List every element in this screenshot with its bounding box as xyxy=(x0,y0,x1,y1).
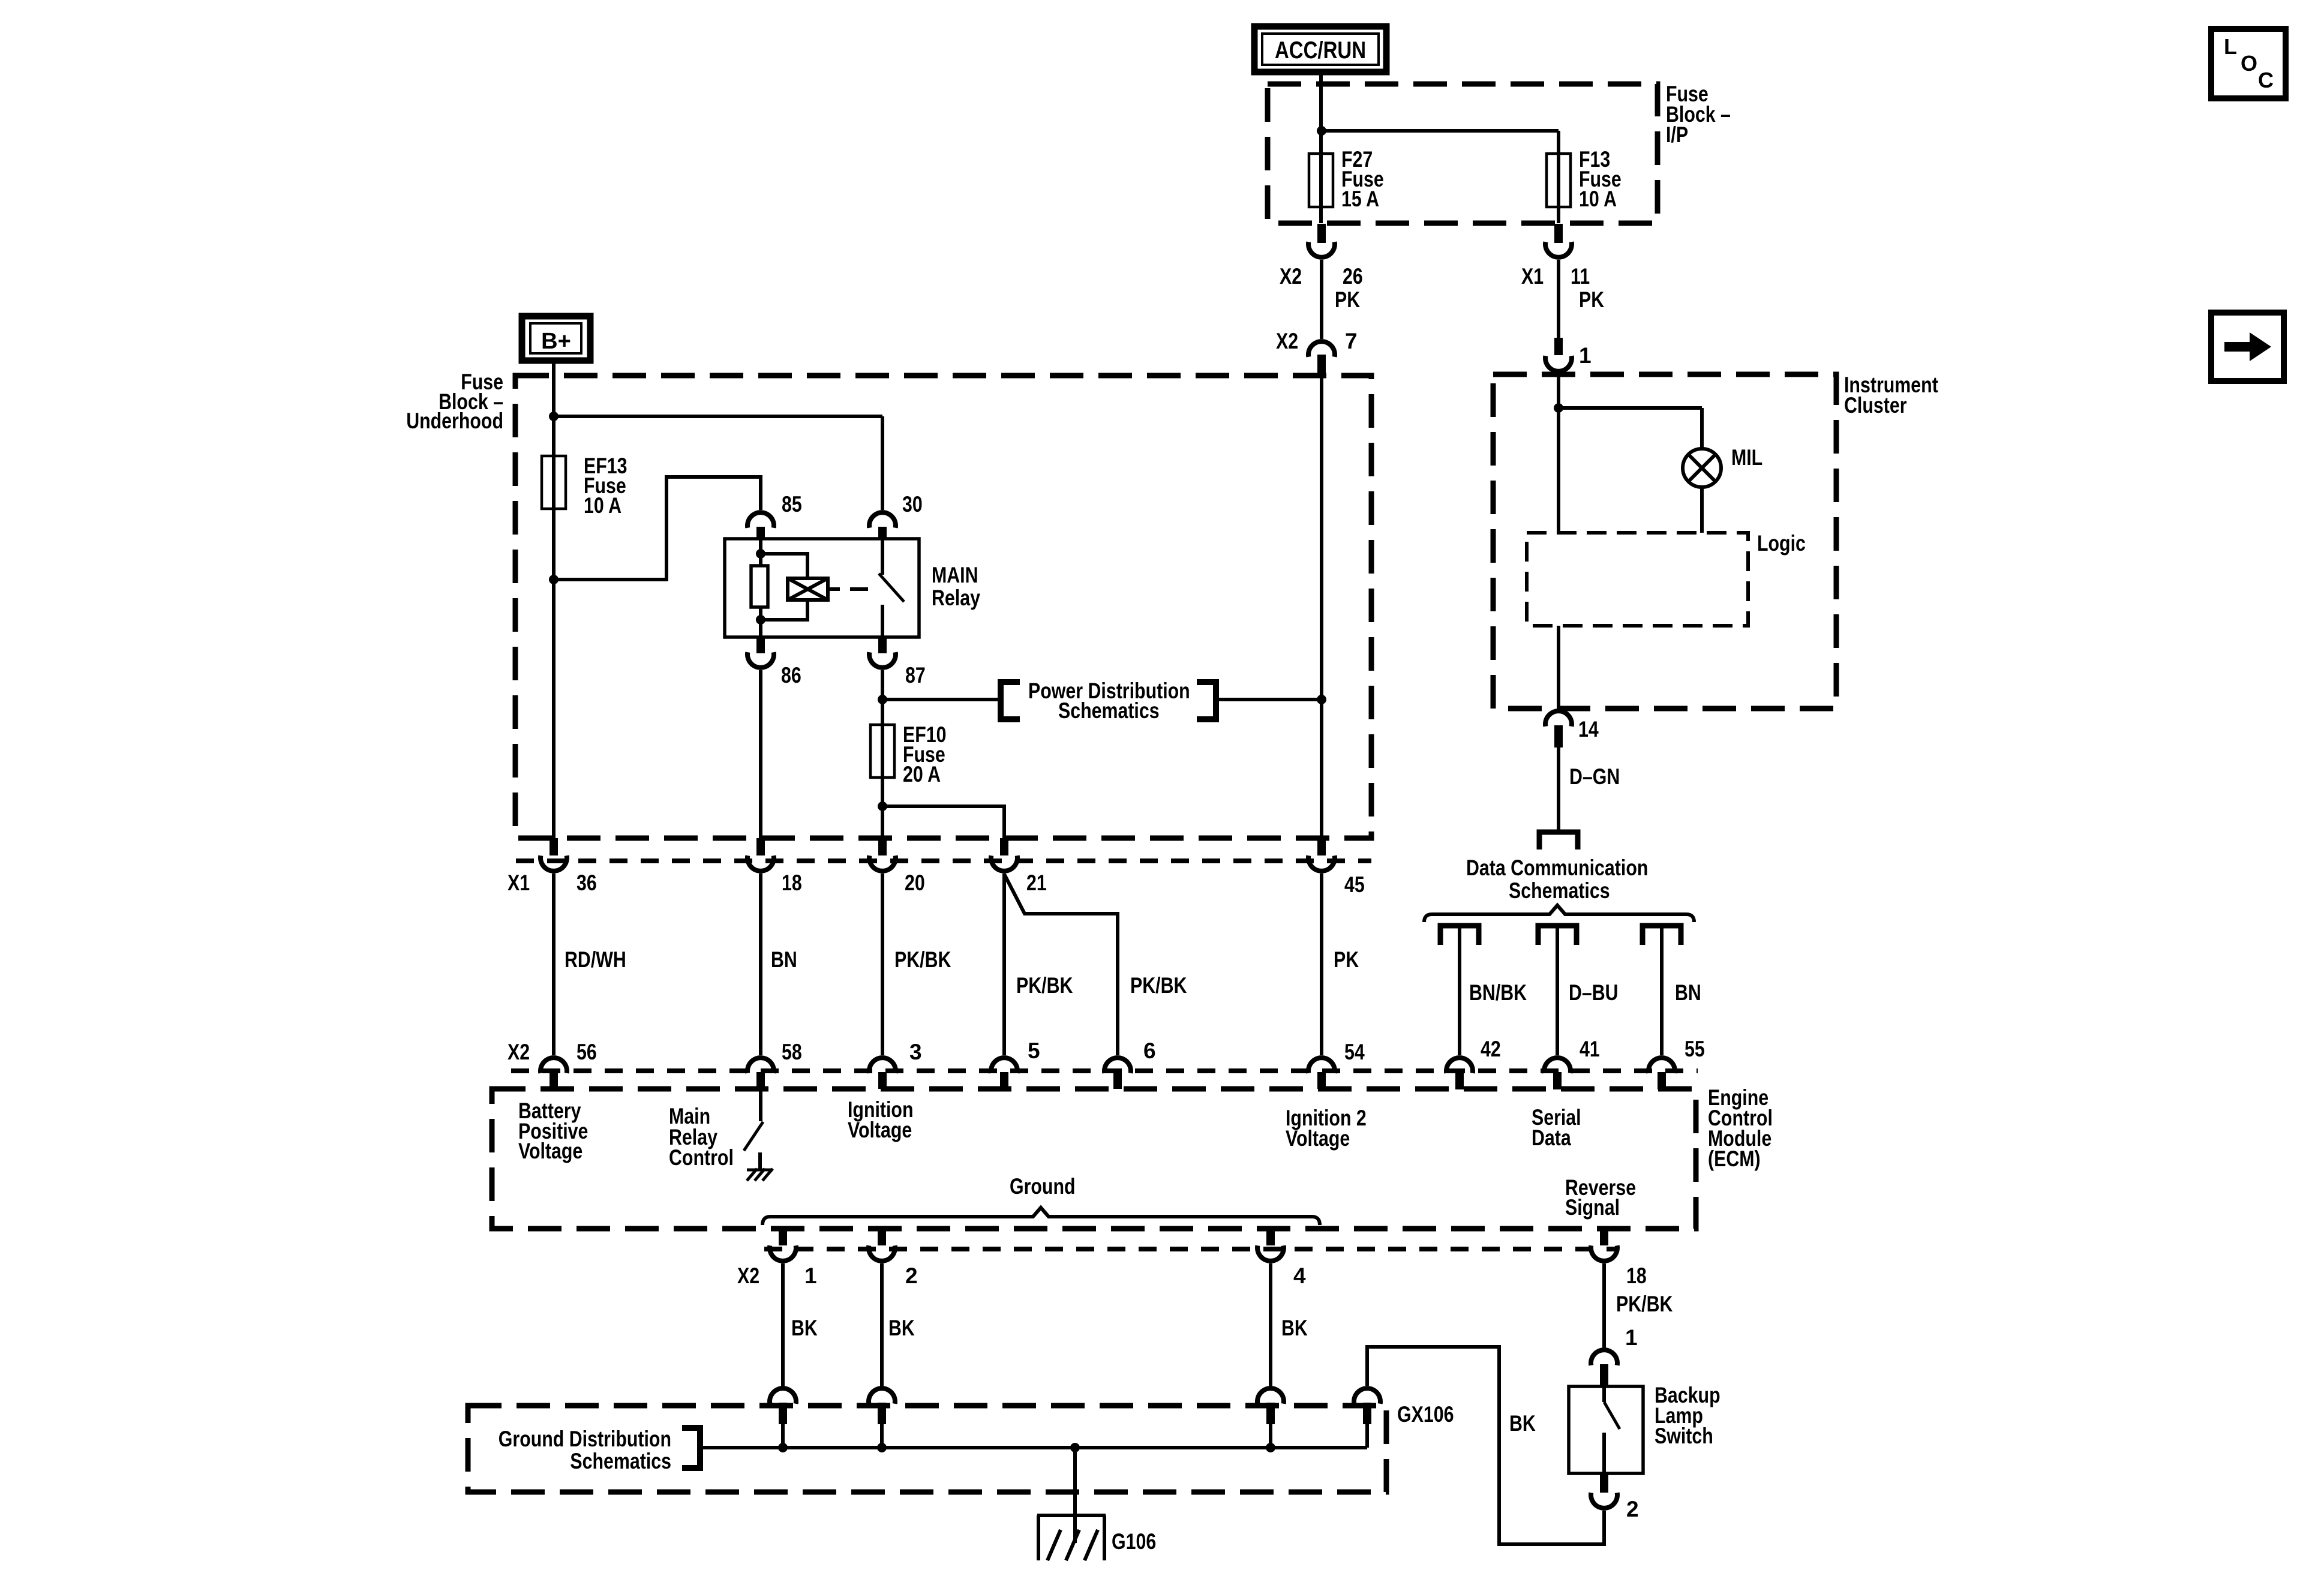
svg-text:1: 1 xyxy=(1625,1325,1638,1350)
svg-text:5: 5 xyxy=(1028,1038,1040,1063)
svg-text:B+: B+ xyxy=(541,329,571,354)
svg-text:26: 26 xyxy=(1343,264,1363,289)
wire to F13 xyxy=(1322,129,1559,133)
lamp MIL (indicator) xyxy=(1683,449,1721,487)
wire relay fixed contact xyxy=(881,539,884,575)
svg-text:Data: Data xyxy=(1532,1125,1571,1150)
wire MIL top xyxy=(1700,408,1704,449)
connector relay pin 87 xyxy=(869,637,896,668)
connector X2 pin 54 xyxy=(1308,1058,1335,1089)
svg-text:BN/BK: BN/BK xyxy=(1469,980,1527,1005)
connector X2 pin 7 xyxy=(1308,341,1335,375)
backup lamp switch box xyxy=(1569,1386,1643,1473)
connector ECM X2 pin 18 xyxy=(1591,1229,1617,1261)
svg-text:7: 7 xyxy=(1345,329,1358,353)
wire relay lower contact xyxy=(881,605,884,637)
wire to G106 xyxy=(1073,1448,1077,1515)
svg-text:X2: X2 xyxy=(1276,329,1298,353)
svg-text:BK: BK xyxy=(888,1316,915,1340)
fuse block underhood dashed box xyxy=(515,376,1371,838)
wire cluster internal xyxy=(1557,374,1560,533)
svg-text:I/P: I/P xyxy=(1666,122,1688,147)
wire BN xyxy=(1660,926,1664,1055)
svg-text:10 A: 10 A xyxy=(1579,187,1617,211)
connector X1 pin 20 xyxy=(869,838,896,871)
wire BN/BK xyxy=(1458,926,1461,1055)
svg-text:X1: X1 xyxy=(508,870,530,895)
connector ECM X2 dotted line xyxy=(764,1247,1618,1251)
fuse EF10 20A xyxy=(870,725,894,778)
node bus junction 2 xyxy=(877,1443,887,1452)
svg-text:PK/BK: PK/BK xyxy=(1130,973,1187,998)
wire through F13 xyxy=(1557,131,1560,223)
connector ECM pin 42 xyxy=(1446,1058,1473,1089)
svg-text:Control: Control xyxy=(669,1145,734,1170)
svg-text:14: 14 xyxy=(1578,717,1599,742)
arrow (continuation) box xyxy=(2211,313,2284,381)
wire ground bus xyxy=(700,1446,1367,1449)
relay MAIN box xyxy=(725,539,919,637)
svg-text:Data Communication: Data Communication xyxy=(1466,855,1648,880)
node junction below EF13 xyxy=(549,575,559,584)
wire MIL to logic xyxy=(1700,487,1704,533)
wire RD/WH xyxy=(552,873,556,1055)
svg-text:20 A: 20 A xyxy=(903,762,941,786)
connector X1 pin 45 xyxy=(1308,838,1335,871)
connector X1 pin 18 xyxy=(747,838,774,871)
connector X1 pin 21 xyxy=(991,838,1017,871)
wire BN xyxy=(759,873,762,1055)
wire BK pin 1 xyxy=(781,1263,785,1387)
svg-text:Ground: Ground xyxy=(1010,1174,1076,1199)
svg-text:54: 54 xyxy=(1344,1040,1365,1064)
svg-text:36: 36 xyxy=(577,870,597,895)
wire PK to X2-7 xyxy=(1320,260,1323,339)
connector X2 dotted line xyxy=(511,1068,1698,1073)
wire relay 86 to X1-18 xyxy=(759,670,762,838)
wire coil branch bottom xyxy=(761,600,807,620)
svg-text:Cluster: Cluster xyxy=(1844,393,1907,418)
wire ACC/RUN feed down through F27 xyxy=(1319,72,1323,223)
svg-text:11: 11 xyxy=(1571,264,1590,289)
node junction below EF10 xyxy=(878,801,887,811)
svg-text:Ground Distribution: Ground Distribution xyxy=(499,1427,671,1451)
wire gx106 right leg xyxy=(1365,1424,1369,1448)
wire EF13 to relay pin 85 xyxy=(554,477,761,580)
wire coil branch top xyxy=(761,554,807,578)
wire ECM switch blade xyxy=(744,1122,763,1151)
connector ECM X2 pin 2 xyxy=(869,1229,895,1261)
connector backup lamp pin 2 xyxy=(1591,1473,1617,1508)
svg-text:1: 1 xyxy=(1579,343,1592,368)
brace (ground pins) xyxy=(762,1208,1320,1225)
logic dashed box xyxy=(1527,533,1748,626)
connector X2 pin 5 xyxy=(991,1058,1017,1089)
svg-text:15 A: 15 A xyxy=(1341,187,1379,211)
node junction pin 87 to power dist xyxy=(878,695,887,704)
svg-text:18: 18 xyxy=(782,870,802,895)
node bus junction 1 xyxy=(778,1443,788,1452)
wire switch lower contact xyxy=(1602,1433,1606,1473)
svg-text:2: 2 xyxy=(905,1263,918,1288)
svg-text:86: 86 xyxy=(781,663,801,688)
tap to data communication schematics xyxy=(1539,832,1578,849)
svg-text:RD/WH: RD/WH xyxy=(565,947,626,972)
svg-text:GX106: GX106 xyxy=(1397,1402,1454,1427)
ECM dashed box xyxy=(492,1089,1696,1229)
wire BK pin 2 xyxy=(880,1263,884,1387)
svg-text:42: 42 xyxy=(1481,1037,1501,1061)
bracket right xyxy=(1197,682,1216,719)
connector GX106 (pin for ECM ground 4) xyxy=(1257,1388,1284,1424)
svg-text:D–BU: D–BU xyxy=(1569,980,1619,1005)
svg-text:BK: BK xyxy=(791,1316,818,1340)
svg-text:4: 4 xyxy=(1293,1263,1306,1288)
wire B+ main vertical xyxy=(552,361,556,838)
node ACC/RUN (ignition feed tag) xyxy=(1254,26,1386,72)
wire logic to pin 14 xyxy=(1557,626,1560,709)
ground distribution dashed box xyxy=(468,1406,1386,1492)
connector cluster pin 14 xyxy=(1545,711,1572,748)
wire power dist to ignition 2 feed xyxy=(1216,698,1322,701)
connector ECM pin 41 xyxy=(1544,1058,1571,1089)
svg-text:D–GN: D–GN xyxy=(1569,764,1620,789)
svg-text:Schematics: Schematics xyxy=(1509,878,1610,903)
svg-text:Voltage: Voltage xyxy=(1286,1126,1350,1151)
resistor (relay coil suppression) xyxy=(751,566,768,607)
wire gnd 1 to bus xyxy=(781,1424,785,1448)
svg-text:BK: BK xyxy=(1509,1411,1536,1436)
svg-text:BN: BN xyxy=(771,947,797,972)
connector backup lamp pin 1 xyxy=(1591,1350,1617,1386)
svg-text:Signal: Signal xyxy=(1565,1195,1620,1220)
svg-text:55: 55 xyxy=(1685,1037,1705,1061)
node bus junction G106 xyxy=(1070,1443,1080,1452)
wire relay actuator dash xyxy=(850,587,868,591)
connector GX106 (pin for backup lamp ground) xyxy=(1354,1388,1380,1424)
node coil bottom junction xyxy=(756,615,765,625)
wire gnd 4 to bus xyxy=(1269,1424,1272,1448)
coil (relay winding box with X) xyxy=(788,578,840,600)
svg-text:Relay: Relay xyxy=(932,586,980,610)
wire to relay pin 30 xyxy=(554,415,882,418)
wire BK backup lamp ground loop xyxy=(1367,1347,1604,1544)
svg-text:(ECM): (ECM) xyxy=(1708,1146,1761,1171)
node junction to MIL xyxy=(1554,403,1563,413)
ground G106 xyxy=(1037,1515,1106,1560)
svg-text:Schematics: Schematics xyxy=(1058,698,1160,723)
tap serial data BN/BK xyxy=(1440,926,1479,945)
connector X1 pin 36 xyxy=(541,838,567,871)
connector X2 pin 56 xyxy=(541,1058,567,1089)
wire down to pin 30 xyxy=(881,416,884,510)
connector GX106 (pin for ECM ground 2) xyxy=(869,1388,895,1424)
wire PK/BK pin 21 to 5 xyxy=(1002,873,1006,1055)
connector cluster pin 1 xyxy=(1545,338,1572,371)
node junction ACC feed split xyxy=(1317,126,1326,136)
tap serial data BN xyxy=(1643,926,1681,945)
svg-text:Schematics: Schematics xyxy=(570,1449,671,1473)
svg-text:X2: X2 xyxy=(1280,264,1302,289)
svg-text:PK: PK xyxy=(1334,947,1359,972)
connector ECM X2 pin 1 xyxy=(770,1229,796,1261)
tap serial data D–BU xyxy=(1538,926,1577,945)
svg-text:2: 2 xyxy=(1626,1497,1639,1521)
ground (ECM internal chassis ground) xyxy=(747,1169,773,1181)
connector ECM X2 pin 4 xyxy=(1257,1229,1284,1261)
svg-text:6: 6 xyxy=(1143,1038,1156,1063)
connector X2 pin 6 xyxy=(1104,1058,1131,1089)
svg-text:20: 20 xyxy=(905,870,925,895)
connector ECM pin 55 xyxy=(1649,1058,1675,1089)
connector relay pin 86 xyxy=(747,637,774,668)
svg-text:PK/BK: PK/BK xyxy=(894,947,951,972)
svg-text:85: 85 xyxy=(782,492,802,517)
svg-text:X2: X2 xyxy=(737,1263,759,1288)
fuse block I/P dashed box xyxy=(1268,84,1658,223)
brace (data communication) xyxy=(1424,905,1694,922)
svg-text:MIL: MIL xyxy=(1731,445,1762,470)
connector X1 pin 11 xyxy=(1545,224,1572,257)
connector GX106 (pin for ECM ground 1) xyxy=(770,1388,796,1424)
svg-text:18: 18 xyxy=(1626,1263,1647,1288)
svg-text:45: 45 xyxy=(1344,872,1365,897)
svg-text:21: 21 xyxy=(1026,870,1047,895)
connector X2 pin 3 xyxy=(869,1058,896,1089)
svg-text:PK/BK: PK/BK xyxy=(1616,1292,1673,1316)
wire D-GN xyxy=(1557,748,1560,830)
wire PK/BK pin 21 to 6 xyxy=(1004,874,1118,1055)
wire to MIL lamp xyxy=(1559,406,1702,410)
node bus junction 4 xyxy=(1266,1443,1275,1452)
wire PK/BK pin 20 to 3 xyxy=(881,873,884,1055)
wire switch upper contact xyxy=(1602,1386,1606,1402)
wire relay coil branch xyxy=(759,539,762,637)
svg-text:PK: PK xyxy=(1579,287,1604,312)
svg-text:3: 3 xyxy=(909,1040,922,1064)
svg-text:41: 41 xyxy=(1580,1037,1600,1061)
connector X1 dotted line xyxy=(516,858,1371,863)
svg-text:L: L xyxy=(2224,34,2237,59)
svg-text:87: 87 xyxy=(905,663,926,688)
node B+ (battery feed tag) xyxy=(522,316,590,361)
connector X2 pin 26 xyxy=(1308,224,1335,257)
svg-text:PK: PK xyxy=(1335,287,1360,312)
wire ECM switch upper xyxy=(759,1089,762,1121)
fuse F13 10A xyxy=(1547,154,1571,207)
svg-text:Voltage: Voltage xyxy=(518,1139,582,1163)
wire ECM switch to ground xyxy=(758,1152,762,1170)
wire PK pin 45 to 54 xyxy=(1320,873,1323,1055)
svg-text:X1: X1 xyxy=(1521,264,1544,289)
connector relay pin 30 xyxy=(869,512,896,539)
wire PK to cluster pin 1 xyxy=(1557,260,1560,338)
connector X2 pin 58 xyxy=(747,1058,774,1089)
fuse F27 15A xyxy=(1309,154,1333,207)
svg-text:Underhood: Underhood xyxy=(406,409,503,433)
svg-text:1: 1 xyxy=(804,1263,817,1288)
wire relay 87 down through EF10 xyxy=(881,670,884,838)
wire EF10 to X1-21 xyxy=(882,806,1004,838)
wire D–BU xyxy=(1556,926,1559,1055)
wire PK/BK reverse signal xyxy=(1602,1263,1606,1349)
wire BK pin 4 xyxy=(1269,1263,1272,1387)
svg-text:O: O xyxy=(2241,51,2257,76)
node junction B+ split xyxy=(549,412,559,421)
svg-text:Voltage: Voltage xyxy=(848,1118,912,1142)
connector relay pin 85 xyxy=(747,512,774,539)
svg-text:BK: BK xyxy=(1281,1316,1308,1340)
bracket left xyxy=(1001,682,1020,719)
svg-text:Logic: Logic xyxy=(1757,531,1806,556)
svg-text:ACC/RUN: ACC/RUN xyxy=(1275,37,1366,64)
svg-text:56: 56 xyxy=(577,1040,597,1064)
svg-text:10 A: 10 A xyxy=(584,493,621,518)
fuse EF13 10A xyxy=(542,456,566,509)
instrument cluster dashed box xyxy=(1493,374,1836,709)
svg-text:58: 58 xyxy=(782,1040,802,1064)
svg-text:BN: BN xyxy=(1675,980,1701,1005)
svg-text:30: 30 xyxy=(902,492,923,517)
svg-text:Switch: Switch xyxy=(1655,1424,1713,1448)
svg-text:C: C xyxy=(2258,68,2274,92)
wire switch blade xyxy=(1604,1402,1620,1429)
wire to power distribution tag xyxy=(882,698,1001,701)
bracket (ground distribution tag) xyxy=(682,1428,700,1468)
node coil top junction xyxy=(756,549,765,559)
wire relay switch blade xyxy=(879,574,904,602)
svg-text:G106: G106 xyxy=(1112,1529,1156,1554)
wire ACC feed through underhood block to pin 45 xyxy=(1320,376,1323,838)
LOC reference box xyxy=(2211,29,2286,98)
wire gnd 2 to bus xyxy=(880,1424,884,1448)
svg-text:MAIN: MAIN xyxy=(932,563,978,587)
svg-text:X2: X2 xyxy=(508,1040,530,1064)
node junction on ignition 2 feed xyxy=(1317,695,1326,704)
svg-text:PK/BK: PK/BK xyxy=(1016,973,1073,998)
